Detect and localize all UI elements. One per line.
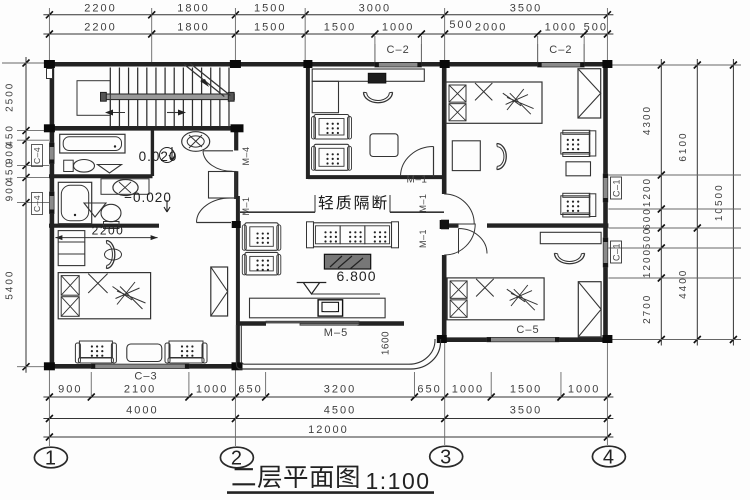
column at (607,64)	[602, 60, 612, 68]
window C-2 right band	[538, 63, 585, 67]
chair right-bottom	[555, 253, 585, 264]
door M-1 up arc	[444, 194, 474, 224]
svg-text:900: 900	[5, 179, 16, 202]
svg-text:C–4: C–4	[32, 147, 42, 164]
wall bottom-left	[49, 364, 241, 369]
study door M-1 arc	[401, 147, 434, 177]
tv cabinet	[250, 298, 386, 318]
balcony inner	[241, 325, 435, 364]
svg-text:1000: 1000	[545, 22, 577, 34]
svg-text:1000: 1000	[568, 384, 600, 396]
svg-text:C–2: C–2	[549, 44, 572, 56]
svg-text:2200: 2200	[84, 2, 116, 14]
desk right-top	[452, 141, 480, 171]
grid bubble 2	[220, 447, 253, 468]
label C-1 upper	[611, 177, 622, 199]
window C-2 left band	[375, 63, 422, 67]
svg-text:1:100: 1:100	[365, 468, 430, 494]
bed quilt scribble 2	[507, 285, 538, 310]
door M-1 down arc	[444, 224, 475, 255]
svg-text:1000: 1000	[452, 384, 484, 396]
study sofa chair 2	[314, 144, 349, 170]
svg-text:650: 650	[417, 384, 441, 396]
armchair right-top b	[561, 196, 590, 215]
study chair	[364, 92, 393, 103]
armchair right-top a	[561, 133, 590, 154]
stair treads	[109, 68, 111, 127]
wall bedroom/living vertical	[236, 196, 240, 366]
top dimension row 1 (2200/1800/1500/3000/3500)	[43, 14, 613, 16]
svg-text:3: 3	[440, 447, 451, 469]
study desk left	[312, 81, 338, 112]
svg-text:1200: 1200	[642, 248, 653, 278]
door bath upper leaf	[203, 150, 233, 152]
label C-4 upper	[32, 145, 43, 167]
wall corridor vertical upper	[234, 131, 238, 151]
column at (442,339)	[437, 335, 447, 343]
living coffee table	[324, 254, 370, 269]
svg-text:1200: 1200	[642, 177, 653, 207]
bathtub 2	[58, 182, 91, 223]
svg-text:2700: 2700	[642, 294, 653, 324]
window C-4 upper band	[50, 143, 55, 164]
svg-text:12000: 12000	[308, 424, 349, 436]
grid bubble 3	[430, 446, 463, 467]
column at (607,339)	[602, 335, 612, 343]
study table	[370, 134, 398, 157]
wardrobe right-top	[578, 69, 601, 118]
window C-1 upper band	[603, 174, 608, 202]
svg-text:3500: 3500	[510, 2, 542, 14]
bed right-bottom	[447, 278, 544, 320]
stool left bedroom	[106, 241, 115, 269]
window C-5 band	[487, 337, 559, 341]
column at (49,64)	[44, 60, 55, 68]
bed quilt scribble 3	[113, 282, 146, 309]
svg-text:6100: 6100	[678, 131, 689, 161]
column at (308,64)	[303, 60, 312, 68]
bottom extension line axis3	[444, 343, 446, 445]
svg-text:2200: 2200	[84, 22, 116, 34]
bottom extension line axis4	[606, 343, 608, 445]
column at (445,64)	[440, 60, 450, 68]
bathtub 1	[60, 134, 125, 153]
wall living/right vertical upper	[442, 67, 447, 195]
svg-text:M–1: M–1	[418, 193, 428, 212]
column at (235,64)	[230, 60, 241, 68]
bottom dimension row C (12000)	[43, 436, 613, 438]
svg-text:5400: 5400	[5, 270, 16, 300]
svg-text:4500: 4500	[324, 405, 356, 417]
svg-text:C–4: C–4	[32, 195, 42, 212]
svg-text:M–5: M–5	[324, 327, 348, 339]
wall stair bottom	[49, 126, 243, 131]
wall bathroom/bedroom	[49, 224, 159, 228]
shower symbol 2	[84, 203, 106, 217]
svg-text:1500: 1500	[254, 22, 286, 34]
slope arrow 1	[169, 147, 175, 160]
wall study left	[306, 67, 310, 180]
svg-text:10500: 10500	[714, 183, 725, 221]
svg-text:M–1: M–1	[418, 229, 428, 248]
svg-text:500: 500	[642, 227, 653, 250]
wall corridor vertical middle	[234, 171, 238, 199]
stair handrail	[103, 94, 234, 100]
door bedroom arc	[197, 198, 232, 223]
study computer	[368, 73, 386, 83]
partition line right	[390, 211, 444, 213]
svg-text:3500: 3500	[510, 405, 542, 417]
window C-4 lower band	[50, 192, 55, 214]
washbasin round 1	[182, 132, 210, 152]
svg-text:600: 600	[642, 207, 653, 230]
column at (444,224)	[440, 220, 449, 229]
bottom dimension row B (4000/4500/3500)	[43, 418, 613, 420]
svg-text:2500: 2500	[5, 82, 16, 112]
table right-top	[566, 162, 591, 176]
title 二层平面图	[232, 468, 255, 485]
bottom extension line axis1	[48, 369, 50, 446]
stair landing outline	[77, 81, 110, 116]
svg-text:2000: 2000	[475, 22, 507, 34]
grid bubble 1	[34, 447, 67, 468]
table left bedroom	[127, 344, 162, 362]
wall living/right vertical lower	[442, 255, 447, 343]
svg-text:C–3: C–3	[134, 371, 157, 383]
wall living bottom right part	[358, 321, 405, 325]
wall right divider	[441, 223, 458, 227]
grid bubble 4	[592, 446, 625, 467]
top dimension row 2 (2200/1800/1500/1500/1000/500/2000/1000/500)	[43, 33, 613, 35]
svg-text:2: 2	[231, 448, 242, 470]
bottom extension lines short	[90, 372, 92, 397]
wall right divider b	[487, 223, 608, 227]
armchair left bedroom a	[79, 341, 112, 358]
partition label box	[314, 195, 316, 212]
title underline	[227, 491, 434, 494]
bottom dimension row A (900/2100/1000/650/3200/650/1000/1500/1000)	[43, 396, 613, 398]
right dimension chain middle (6100/4400)	[696, 59, 698, 346]
svg-text:4: 4	[603, 447, 614, 469]
top extension lines row2	[374, 36, 376, 62]
wall bathroom divider	[49, 174, 153, 178]
svg-text:1800: 1800	[177, 22, 209, 34]
window C-1 lower band	[603, 238, 608, 267]
study sofa chair 1	[314, 115, 349, 140]
bottom extension line axis2	[234, 369, 236, 446]
column at (49,366)	[44, 362, 55, 370]
window C-3 band	[91, 364, 189, 368]
svg-text:C–5: C–5	[516, 324, 539, 336]
label 轻质隔断	[319, 195, 333, 209]
svg-text:C–1: C–1	[612, 179, 622, 197]
left wall small marker	[47, 69, 53, 79]
svg-text:C–1: C–1	[612, 243, 622, 261]
right extension lines	[608, 64, 741, 66]
svg-text:1500: 1500	[254, 2, 286, 14]
partition line left	[240, 211, 315, 213]
door right-bottom arc	[459, 229, 488, 254]
study door M-1 leaf	[433, 147, 435, 178]
svg-text:4400: 4400	[678, 269, 689, 299]
svg-text:1000: 1000	[196, 384, 228, 396]
right dimension chain outer (10500)	[732, 59, 734, 346]
shower symbol 1	[98, 165, 122, 174]
svg-text:500: 500	[449, 19, 473, 31]
wardrobe right-bottom	[578, 282, 601, 337]
svg-text:6.800: 6.800	[336, 268, 376, 284]
bed right-top bedroom	[446, 82, 542, 123]
svg-text:M–1: M–1	[241, 196, 251, 215]
svg-text:2200: 2200	[92, 224, 125, 238]
toilet 1 tank	[64, 160, 73, 171]
column at (236,224)	[232, 221, 241, 228]
svg-text:M–4: M–4	[241, 146, 251, 165]
wall bathroom compartment vertical	[151, 131, 154, 177]
door bath upper arc	[203, 151, 232, 171]
bed left bedroom	[58, 273, 150, 319]
slope arrow 2	[164, 200, 170, 212]
balcony outer	[237, 325, 441, 369]
wardrobe left bedroom	[58, 231, 85, 266]
svg-text:1500: 1500	[510, 384, 542, 396]
svg-text:650: 650	[238, 384, 262, 396]
column at (237,128)	[231, 124, 244, 132]
svg-text:1800: 1800	[177, 2, 209, 14]
wall bottom-right	[441, 337, 608, 342]
svg-text:1500: 1500	[324, 22, 356, 34]
level mark 6.800 triangle	[297, 283, 327, 295]
stair direction arrow right	[167, 112, 183, 114]
svg-text:1000: 1000	[382, 22, 414, 34]
label C-4 lower	[32, 193, 43, 215]
study desk top	[312, 69, 424, 81]
svg-text:900: 900	[58, 384, 82, 396]
living sofa single 1	[245, 223, 278, 251]
washbasin counter 2	[101, 179, 149, 195]
wall left	[50, 62, 55, 369]
wall top	[49, 62, 608, 67]
toilet 1 bowl	[74, 160, 95, 173]
svg-text:1: 1	[45, 448, 56, 470]
top extension lines row1	[48, 8, 50, 62]
svg-text:2100: 2100	[124, 384, 156, 396]
door bedroom leaf	[197, 222, 232, 224]
svg-text:3200: 3200	[324, 384, 356, 396]
cabinet left bedroom	[211, 267, 228, 316]
interior dim 2200	[55, 237, 157, 239]
left dimension chain (2500/450/900/450/900/5400)	[25, 57, 27, 373]
left extension lines	[2, 62, 49, 64]
chair right-top	[497, 144, 507, 170]
svg-text:3000: 3000	[359, 2, 391, 14]
washbasin round 2	[113, 180, 138, 196]
svg-text:−0.020: −0.020	[124, 190, 172, 205]
label C-1 lower	[611, 241, 622, 263]
toilet 2 bowl	[101, 204, 121, 221]
living long sofa	[314, 223, 392, 247]
wall corridor vertical lower	[234, 221, 238, 228]
bed quilt scribble 1	[503, 89, 534, 114]
stair break line	[184, 65, 224, 97]
svg-text:4000: 4000	[126, 405, 158, 417]
sliding door M-5 leaf	[266, 321, 359, 323]
column at (237,366)	[232, 362, 243, 370]
svg-text:4300: 4300	[642, 105, 653, 135]
wall living bottom left part	[237, 321, 267, 325]
svg-text:M–1: M–1	[407, 175, 428, 186]
C-2 label box lines	[374, 44, 376, 62]
svg-text:500: 500	[584, 22, 608, 34]
tv set	[318, 300, 343, 316]
stair direction arrow left	[107, 112, 125, 114]
armchair left bedroom b	[169, 341, 203, 358]
svg-text:1600: 1600	[381, 331, 392, 355]
column at (49,128)	[44, 124, 55, 132]
shelf right-bottom	[540, 232, 601, 243]
svg-text:C–2: C–2	[387, 44, 410, 56]
wall right	[603, 62, 608, 343]
wall study bottom	[308, 175, 443, 179]
right dimension chain inner (4300/1200/600/500/1200/2700)	[660, 59, 662, 346]
living sofa single 2	[245, 252, 278, 275]
wall shaft jog	[209, 172, 237, 199]
door stop block	[441, 220, 449, 230]
